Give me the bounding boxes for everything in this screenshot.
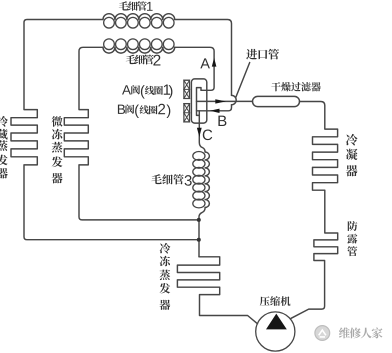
label 压缩机 bbox=[260, 296, 291, 306]
capillary tube coil 毛细管2 bbox=[103, 39, 175, 53]
solenoid coil B (线圈2) box with X pattern bbox=[184, 104, 190, 122]
watermark text 维修人家 bbox=[339, 327, 383, 338]
wire: left pipe + cold-storage evaporator loop (冷藏蒸发器) + return line to junction B bbox=[11, 20, 199, 240]
label 毛细管1 bbox=[119, 1, 153, 11]
capillary tube coil 毛细管1 bbox=[103, 14, 175, 28]
freezer evaporator 冷冻蒸发器 loop + suction line to compressor bbox=[177, 257, 257, 324]
capillary tube coil 毛细管3 (vertical) bbox=[193, 152, 210, 208]
flow arrow into port B (left) bbox=[210, 109, 220, 113]
label A (port) bbox=[200, 58, 210, 68]
wire: capillary 2 line to valve port A (vertical x=214) bbox=[175, 47, 214, 90]
label B阀(线圈2) bbox=[118, 104, 170, 118]
solenoid coil A (线圈1) box with X pattern bbox=[184, 80, 190, 98]
flow arrow A (up) bbox=[212, 58, 217, 67]
junction node (return from 微冻蒸发器) bbox=[197, 218, 201, 222]
label 微冻蒸发器 (vertical) bbox=[52, 116, 63, 183]
label 冷藏蒸发器 (vertical, clipped at left edge) bbox=[0, 116, 8, 179]
drier filter 干燥过滤器 capsule bbox=[253, 96, 300, 106]
compressor 压缩机 circle bbox=[256, 312, 295, 351]
label C (port) bbox=[203, 130, 212, 141]
valve body (three-way solenoid valve) bbox=[191, 79, 206, 123]
leader line for label 进口管 bbox=[236, 63, 250, 98]
label 干燥过滤器 bbox=[271, 82, 320, 91]
label 冷凝器 (vertical) bbox=[346, 134, 358, 176]
wire: capillary 3 outlet down through junctions bbox=[199, 208, 205, 257]
wire: valve port C down line bbox=[199, 111, 205, 152]
label 毛细管3 bbox=[151, 174, 191, 186]
wire: valve middle port to drier filter bbox=[197, 100, 253, 102]
label 进口管 bbox=[246, 49, 279, 60]
wire: filter to condenser 冷凝器 loop, anti-dew pipe 防露管 loop, down to compressor discharge bbox=[291, 102, 338, 319]
flow arrow middle port (right) bbox=[215, 99, 226, 103]
label A阀(线圈1) bbox=[122, 84, 172, 98]
label 防露管 (vertical) bbox=[347, 221, 357, 256]
valve inner port structure bbox=[197, 88, 202, 116]
flow arrow C (down) bbox=[197, 128, 202, 137]
wire: top line from capillary 1 into inlet drop pipe with crossing hop bbox=[175, 20, 237, 111]
label 冷冻蒸发器 (vertical) bbox=[160, 243, 171, 310]
label B (port) bbox=[218, 116, 226, 126]
watermark logo circle bbox=[315, 326, 330, 341]
label 毛细管2 bbox=[126, 55, 161, 66]
compressor triangle symbol bbox=[266, 314, 287, 330]
junction node (return from 冷藏蒸发器) bbox=[197, 238, 201, 242]
wire: second pipe + micro-freeze evaporator loop (微冻蒸发器) + return line to junction A bbox=[64, 47, 199, 220]
